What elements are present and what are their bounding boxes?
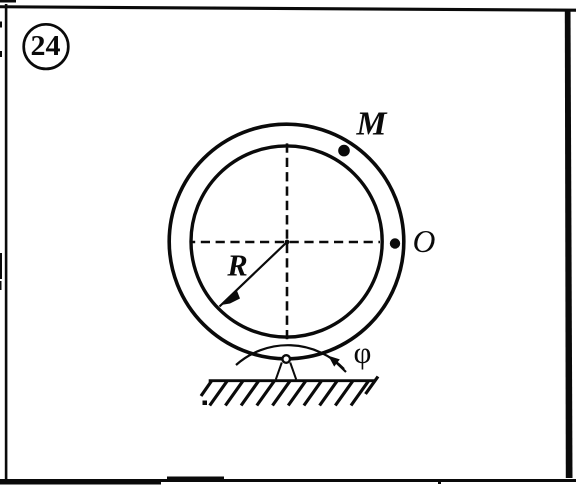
outer ring circle (169, 124, 404, 359)
left edge smudge D (0, 281, 2, 290)
phi arrowhead (328, 356, 340, 367)
vertical dashed centerline (286, 142, 289, 342)
point O dot (390, 238, 400, 248)
center node (285, 240, 290, 245)
top-left corner smudge (0, 0, 16, 3)
frame top border (0, 5, 576, 12)
ground line (209, 379, 375, 382)
svg-text:R: R (226, 249, 247, 283)
left edge smudge A (0, 22, 2, 28)
radius R arrowhead (221, 290, 240, 306)
svg-text:φ: φ (354, 335, 372, 370)
frame right border (565, 9, 573, 478)
frame left border (5, 4, 8, 479)
left edge smudge C (0, 253, 2, 279)
frame bottom border (0, 479, 576, 485)
radius R arrow line (220, 242, 288, 307)
horizontal dashed centerline (192, 241, 380, 244)
inner ring circle (191, 146, 382, 337)
hatch stray dot (203, 401, 208, 406)
pivot circle (282, 355, 290, 363)
left edge smudge B (0, 51, 2, 57)
point M dot (338, 145, 350, 157)
ground hatching (201, 377, 378, 406)
svg-text:24: 24 (31, 31, 61, 62)
pivot support left leg (276, 363, 282, 380)
phi arc (236, 345, 344, 369)
badge circle 24 (24, 24, 69, 69)
svg-text:O: O (413, 224, 436, 259)
bottom border tick (438, 479, 441, 484)
bottom border dash smudge (167, 477, 224, 480)
pivot support right leg (290, 363, 296, 380)
svg-text:M: M (356, 106, 389, 143)
phi arrow tail (337, 363, 347, 372)
